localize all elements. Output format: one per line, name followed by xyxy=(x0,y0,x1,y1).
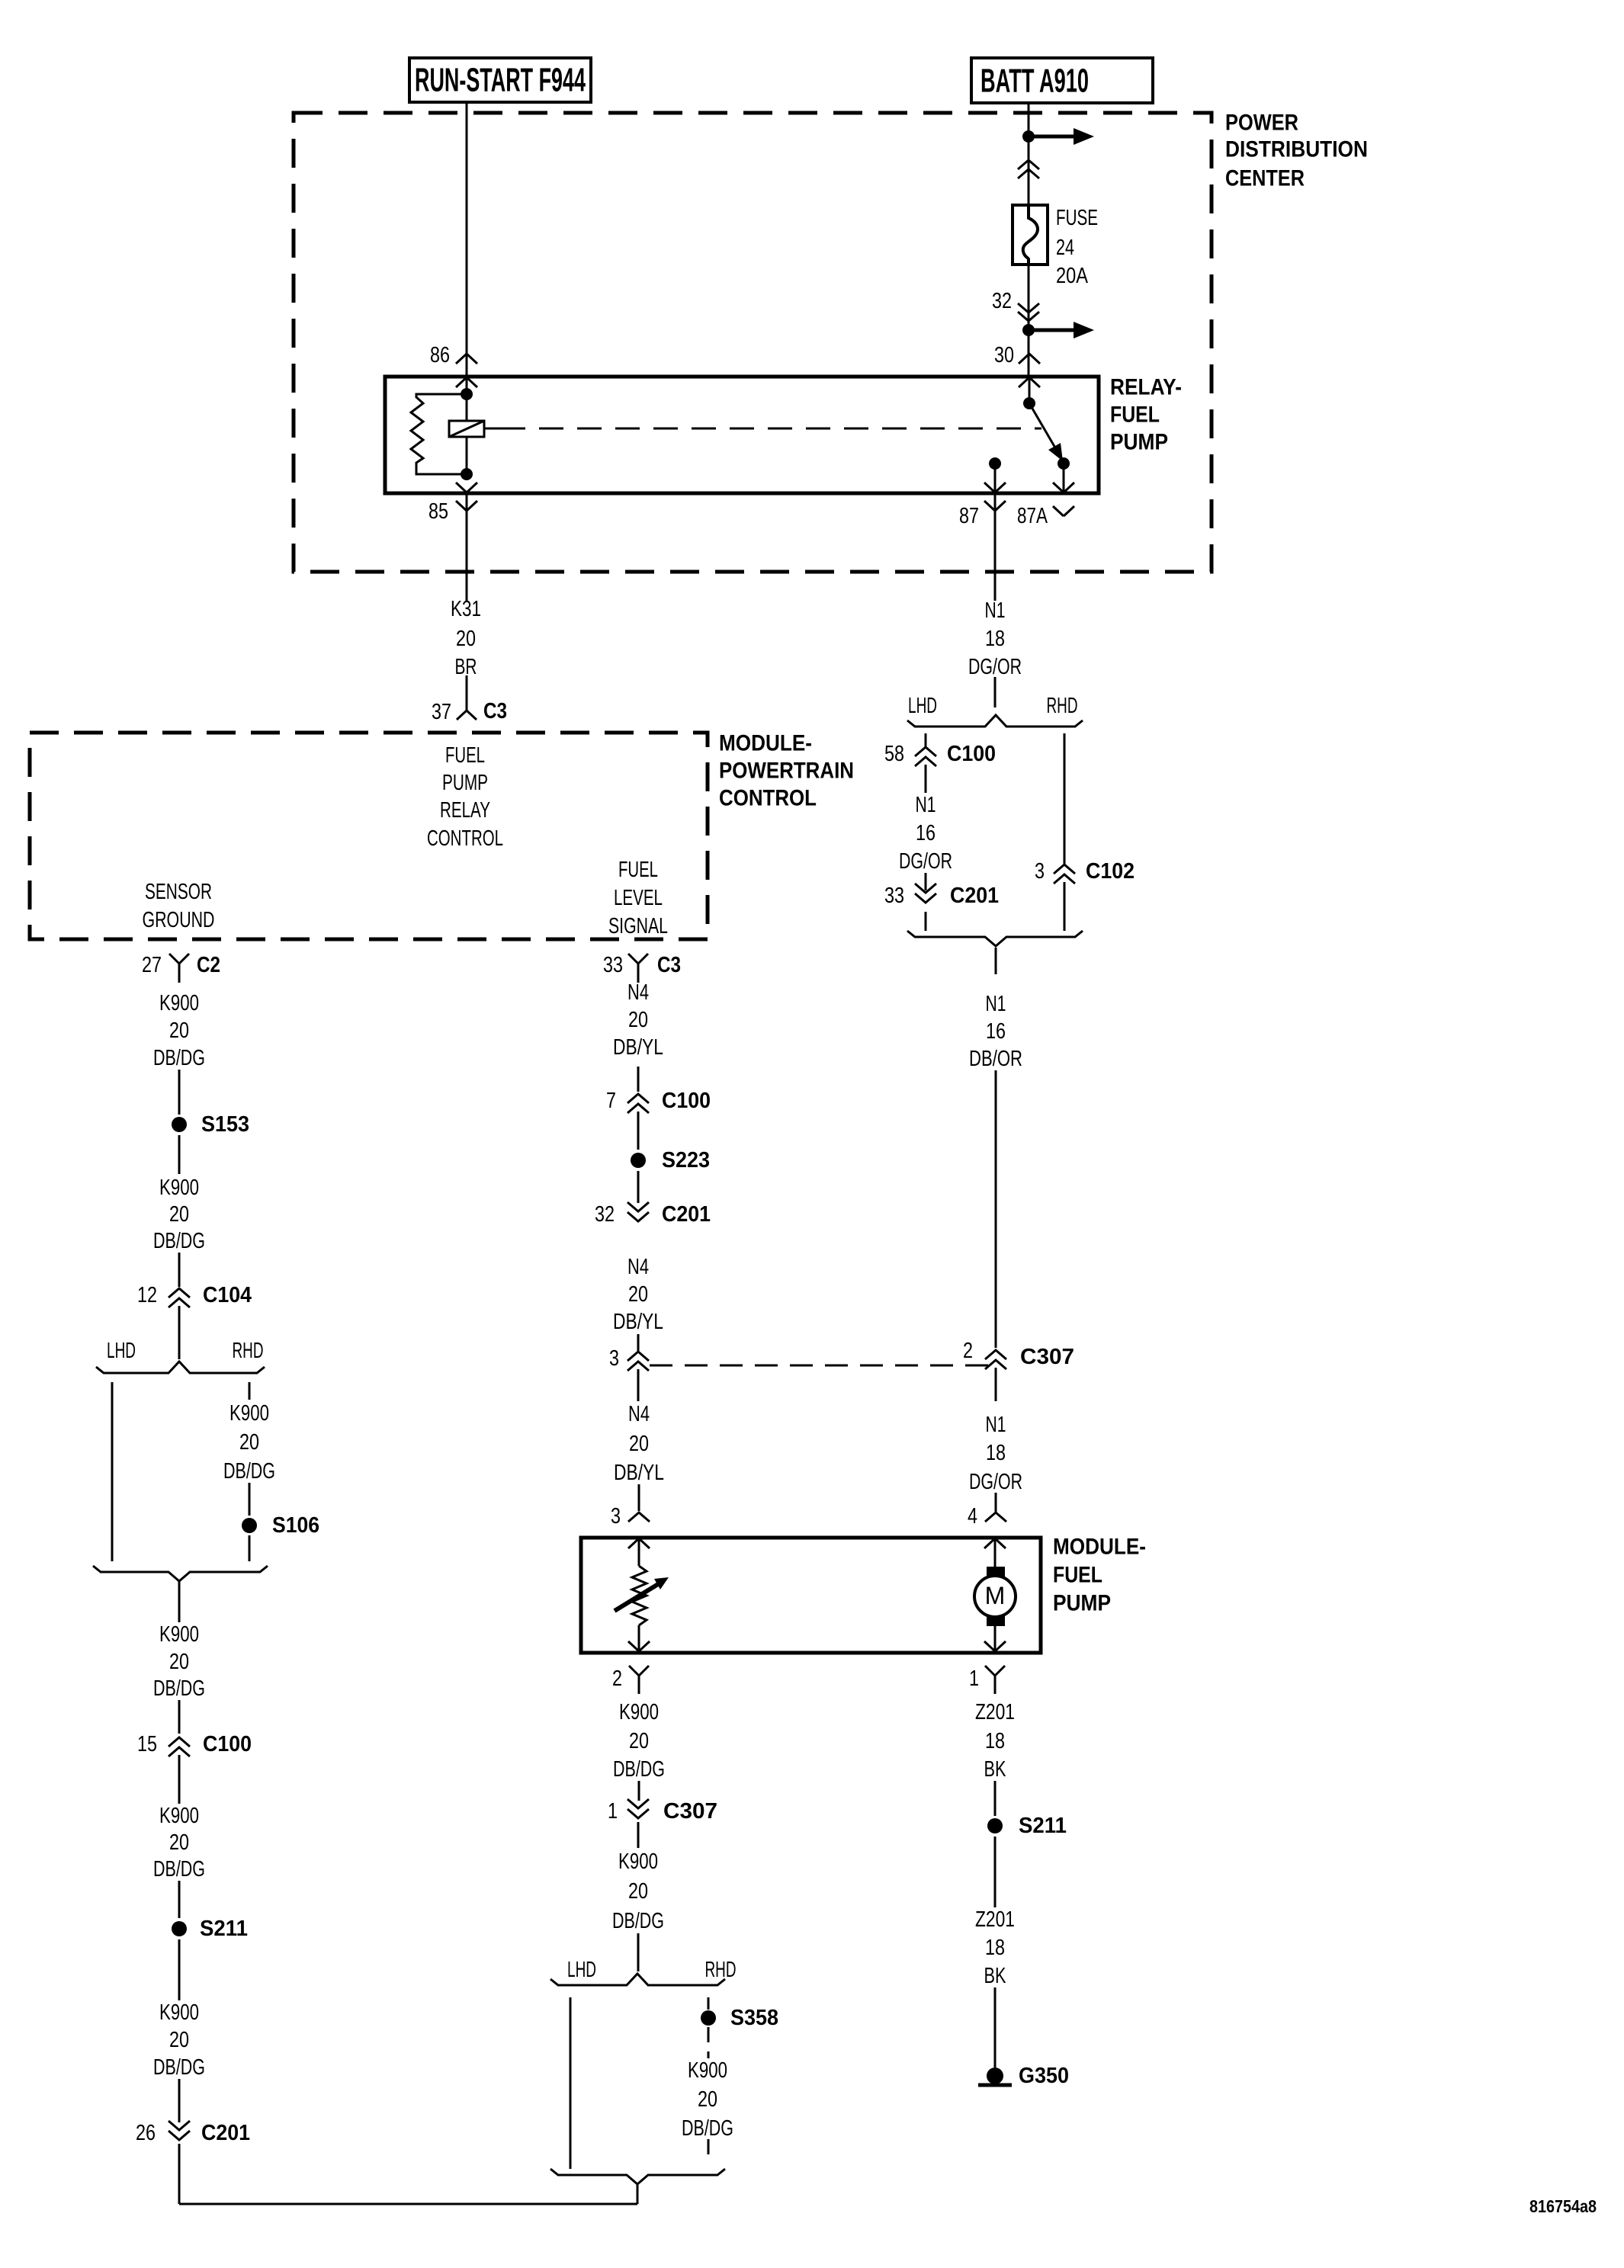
svg-text:POWERTRAIN: POWERTRAIN xyxy=(719,759,854,784)
svg-text:20A: 20A xyxy=(1056,264,1089,288)
svg-text:33: 33 xyxy=(884,884,904,908)
svg-text:16: 16 xyxy=(916,821,936,845)
svg-text:C104: C104 xyxy=(203,1283,252,1307)
svg-text:MODULE-: MODULE- xyxy=(719,731,812,756)
svg-text:DISTRIBUTION: DISTRIBUTION xyxy=(1225,137,1368,162)
relay coil wire pin 86 side xyxy=(466,378,468,421)
svg-text:M: M xyxy=(985,1582,1006,1609)
contact dot 87A xyxy=(1058,457,1070,470)
wire BATT A910 to fuse xyxy=(1028,103,1030,205)
switch pivot dot xyxy=(1023,397,1035,409)
fuel level sensor wire top xyxy=(638,1539,640,1566)
svg-text:K31: K31 xyxy=(451,597,481,621)
wire relay 87 down xyxy=(994,493,997,601)
svg-text:C201: C201 xyxy=(950,884,999,908)
svg-text:12: 12 xyxy=(137,1283,157,1307)
svg-text:SIGNAL: SIGNAL xyxy=(608,914,668,938)
svg-text:18: 18 xyxy=(985,1936,1005,1960)
svg-text:K900: K900 xyxy=(229,1401,269,1426)
svg-text:K900: K900 xyxy=(619,1700,659,1724)
svg-text:DB/YL: DB/YL xyxy=(614,1461,664,1485)
svg-text:32: 32 xyxy=(595,1202,615,1227)
svg-text:CONTROL: CONTROL xyxy=(719,786,817,811)
svg-text:4: 4 xyxy=(968,1504,977,1529)
svg-text:C102: C102 xyxy=(1086,859,1135,884)
svg-text:FUEL: FUEL xyxy=(445,743,485,768)
svg-text:K900: K900 xyxy=(159,1176,199,1200)
svg-text:RELAY-: RELAY- xyxy=(1110,375,1182,400)
power feed arrow xyxy=(1034,135,1074,139)
svg-text:N1: N1 xyxy=(985,598,1006,623)
relay box RELAY-FUEL PUMP xyxy=(385,377,1099,493)
svg-text:DB/DG: DB/DG xyxy=(612,1909,664,1933)
svg-text:K900: K900 xyxy=(159,1804,199,1828)
svg-text:MODULE-: MODULE- xyxy=(1053,1535,1146,1560)
module fuel pump box xyxy=(581,1538,1041,1653)
connector 3 to C307 line xyxy=(627,1352,649,1361)
svg-text:N4: N4 xyxy=(628,1402,650,1426)
svg-text:N1: N1 xyxy=(986,1413,1006,1437)
svg-text:24: 24 xyxy=(1056,236,1074,260)
wire down to C307 xyxy=(995,1070,997,1348)
fuel pump motor wire top xyxy=(994,1539,997,1567)
connector 26 C201 xyxy=(168,2131,190,2140)
svg-text:C3: C3 xyxy=(483,699,507,723)
svg-text:32: 32 xyxy=(992,289,1012,313)
svg-text:87A: 87A xyxy=(1017,504,1048,528)
svg-text:K900: K900 xyxy=(159,2000,199,2025)
svg-text:3: 3 xyxy=(609,1346,619,1371)
splice S211 xyxy=(172,1921,187,1936)
svg-text:DB/DG: DB/DG xyxy=(153,1857,205,1881)
wire RUN-START to relay pin 86 xyxy=(466,102,468,375)
svg-text:20: 20 xyxy=(169,1202,189,1227)
svg-text:1: 1 xyxy=(969,1667,979,1691)
svg-text:C3: C3 xyxy=(657,953,681,977)
wire to ground run xyxy=(637,2184,639,2204)
junction node dot xyxy=(1022,324,1035,336)
svg-text:LHD: LHD xyxy=(908,694,937,718)
connector 58 C100 xyxy=(915,747,936,756)
svg-text:20: 20 xyxy=(239,1430,259,1455)
svg-text:87: 87 xyxy=(959,504,979,528)
connector 33 C201 xyxy=(925,873,927,890)
svg-text:DB/YL: DB/YL xyxy=(613,1310,663,1334)
connector box BATT A910 xyxy=(971,58,1153,103)
splice S106 xyxy=(242,1518,257,1533)
relay contact wire pin 30 side xyxy=(1029,378,1031,403)
LHD RHD merge left xyxy=(93,1566,268,1581)
variable resistor fuel level sensor xyxy=(632,1566,647,1625)
svg-text:DB/DG: DB/DG xyxy=(613,1757,665,1782)
svg-text:RHD: RHD xyxy=(1047,694,1078,718)
svg-text:LEVEL: LEVEL xyxy=(614,886,663,910)
svg-text:N1: N1 xyxy=(916,793,936,817)
svg-text:GROUND: GROUND xyxy=(143,908,215,932)
svg-text:37: 37 xyxy=(432,700,451,724)
svg-text:20: 20 xyxy=(169,1019,189,1043)
svg-text:DB/DG: DB/DG xyxy=(223,1459,275,1484)
in-line connector double chevron xyxy=(1018,160,1039,169)
svg-text:18: 18 xyxy=(985,1729,1005,1753)
svg-text:20: 20 xyxy=(698,2087,717,2112)
svg-text:S358: S358 xyxy=(730,2006,778,2030)
svg-text:DB/YL: DB/YL xyxy=(613,1035,663,1060)
svg-text:S153: S153 xyxy=(201,1112,249,1137)
svg-text:58: 58 xyxy=(884,742,904,766)
svg-text:C307: C307 xyxy=(663,1799,717,1824)
svg-text:LHD: LHD xyxy=(567,1958,596,1982)
svg-text:Z201: Z201 xyxy=(975,1700,1015,1724)
svg-text:PUMP: PUMP xyxy=(1110,430,1168,455)
svg-text:G350: G350 xyxy=(1019,2064,1069,2088)
module powertrain control dashed box xyxy=(30,733,708,939)
relay suppression resistor xyxy=(411,394,467,474)
svg-text:Z201: Z201 xyxy=(975,1907,1015,1932)
contact dot 87 xyxy=(989,457,1001,470)
svg-text:DB/DG: DB/DG xyxy=(153,1046,205,1070)
coil to contact dashed control line xyxy=(484,428,501,430)
fuel pump motor wire bottom xyxy=(994,1626,997,1651)
relay down arrow pin 85 xyxy=(456,483,477,492)
junction dot coil top xyxy=(461,388,473,400)
svg-text:S106: S106 xyxy=(272,1513,319,1538)
svg-text:K900: K900 xyxy=(159,991,199,1015)
svg-text:C2: C2 xyxy=(197,953,220,977)
svg-text:DB/DG: DB/DG xyxy=(682,2116,733,2141)
junction node dot xyxy=(1022,130,1035,143)
svg-text:C307: C307 xyxy=(1020,1345,1074,1369)
fuse 24 20A xyxy=(1013,205,1048,265)
svg-text:BK: BK xyxy=(984,1757,1006,1782)
svg-text:2: 2 xyxy=(963,1339,973,1363)
svg-text:20: 20 xyxy=(456,627,476,651)
splice S153 xyxy=(172,1117,187,1132)
dashed link line C307 xyxy=(650,1365,988,1367)
connector 32 C201 xyxy=(627,1212,649,1221)
svg-text:16: 16 xyxy=(986,1019,1006,1044)
svg-text:N4: N4 xyxy=(627,980,649,1005)
switch arm with arrowhead xyxy=(1029,403,1056,449)
svg-text:20: 20 xyxy=(628,1008,648,1032)
svg-text:BATT A910: BATT A910 xyxy=(980,63,1089,100)
connector 7 C100 xyxy=(627,1094,649,1103)
LHD RHD merge xyxy=(907,931,1083,946)
svg-text:20: 20 xyxy=(169,2028,189,2052)
svg-text:DG/OR: DG/OR xyxy=(969,1470,1022,1494)
svg-text:C100: C100 xyxy=(203,1732,252,1756)
svg-text:POWER: POWER xyxy=(1225,111,1298,136)
svg-text:20: 20 xyxy=(629,1729,649,1753)
wire relay 85 down xyxy=(466,493,468,601)
svg-text:S211: S211 xyxy=(200,1917,248,1941)
svg-text:PUMP: PUMP xyxy=(1053,1591,1111,1616)
svg-text:SENSOR: SENSOR xyxy=(145,880,212,904)
svg-text:FUEL: FUEL xyxy=(1110,403,1160,428)
svg-text:N1: N1 xyxy=(986,992,1006,1016)
svg-text:C201: C201 xyxy=(201,2121,250,2145)
svg-text:BK: BK xyxy=(984,1964,1006,1988)
svg-text:K900: K900 xyxy=(618,1849,658,1874)
connector 37 C3 xyxy=(466,675,468,711)
svg-text:3: 3 xyxy=(611,1504,621,1529)
svg-text:15: 15 xyxy=(137,1732,157,1756)
fuel level sensor wire bottom xyxy=(638,1625,640,1651)
connector 2 C307 xyxy=(985,1350,1006,1359)
LHD RHD split left xyxy=(96,1362,265,1373)
wire fuse to relay pin 30 xyxy=(1028,265,1030,375)
svg-text:RHD: RHD xyxy=(705,1958,737,1982)
svg-text:20: 20 xyxy=(628,1879,648,1904)
svg-text:86: 86 xyxy=(430,343,450,367)
splice S211 xyxy=(987,1818,1003,1833)
svg-text:DG/OR: DG/OR xyxy=(968,655,1022,679)
svg-text:20: 20 xyxy=(629,1432,649,1456)
svg-text:30: 30 xyxy=(994,343,1014,367)
variable resistor arrow xyxy=(615,1582,662,1611)
svg-text:S211: S211 xyxy=(1019,1814,1067,1838)
wire RHD branch xyxy=(249,1382,251,1400)
LHD RHD merge lower xyxy=(550,2169,725,2184)
svg-text:C201: C201 xyxy=(662,1202,711,1227)
svg-text:DG/OR: DG/OR xyxy=(899,849,952,874)
connector 3 C102 xyxy=(1054,865,1075,874)
svg-text:20: 20 xyxy=(628,1282,648,1307)
svg-text:FUEL: FUEL xyxy=(618,858,658,882)
svg-text:2: 2 xyxy=(612,1667,622,1691)
connector 12 C104 xyxy=(168,1288,190,1298)
wire RHD branch dashed xyxy=(708,1997,710,2010)
power distribution center dashed box xyxy=(294,113,1212,572)
connector 1 C307 xyxy=(627,1809,649,1818)
svg-text:RHD: RHD xyxy=(233,1339,264,1363)
connector box RUN-START F944 xyxy=(409,58,591,102)
svg-text:7: 7 xyxy=(606,1089,616,1113)
power feed arrow xyxy=(1034,329,1074,332)
svg-text:K900: K900 xyxy=(159,1622,199,1647)
svg-text:3: 3 xyxy=(1035,859,1045,884)
wire sensor ground return run xyxy=(178,2144,181,2204)
svg-text:FUSE: FUSE xyxy=(1056,206,1098,230)
svg-text:N4: N4 xyxy=(627,1255,649,1279)
relay coil xyxy=(449,421,484,437)
svg-text:PUMP: PUMP xyxy=(442,771,488,795)
svg-text:816754a8: 816754a8 xyxy=(1529,2196,1597,2216)
wire LHD branch xyxy=(570,1997,572,2169)
ground G350 xyxy=(987,2068,1003,2084)
LHD RHD split lower xyxy=(637,1933,640,1971)
svg-text:33: 33 xyxy=(603,953,623,977)
svg-text:LHD: LHD xyxy=(107,1339,136,1363)
svg-text:26: 26 xyxy=(136,2121,156,2145)
svg-text:FUEL: FUEL xyxy=(1053,1563,1102,1588)
fuel pump motor M xyxy=(987,1567,1005,1577)
svg-text:85: 85 xyxy=(428,499,448,524)
svg-text:20: 20 xyxy=(169,1650,189,1674)
svg-text:S223: S223 xyxy=(662,1148,710,1172)
svg-text:C100: C100 xyxy=(662,1089,711,1113)
splice S223 xyxy=(631,1153,646,1168)
svg-text:RUN-START F944: RUN-START F944 xyxy=(415,62,586,99)
svg-text:DB/DG: DB/DG xyxy=(153,1229,205,1253)
wire RHD branch xyxy=(1064,733,1066,865)
wire LHD branch xyxy=(925,733,927,749)
svg-text:K900: K900 xyxy=(688,2058,727,2083)
svg-text:27: 27 xyxy=(142,953,162,977)
wire LHD branch xyxy=(111,1382,114,1561)
svg-text:RELAY: RELAY xyxy=(440,798,490,823)
svg-text:DB/OR: DB/OR xyxy=(969,1047,1022,1071)
svg-text:18: 18 xyxy=(985,627,1005,651)
svg-text:1: 1 xyxy=(608,1799,618,1824)
svg-text:C100: C100 xyxy=(947,742,996,766)
connector 15 C100 xyxy=(168,1737,190,1747)
svg-text:CONTROL: CONTROL xyxy=(427,826,503,851)
LHD RHD split xyxy=(994,677,997,707)
junction dot coil bottom xyxy=(461,468,473,480)
svg-text:20: 20 xyxy=(169,1830,189,1855)
svg-text:18: 18 xyxy=(986,1441,1006,1465)
svg-text:DB/DG: DB/DG xyxy=(153,2055,205,2080)
svg-text:DB/DG: DB/DG xyxy=(153,1676,205,1701)
splice S358 xyxy=(701,2010,716,2026)
svg-text:CENTER: CENTER xyxy=(1225,166,1305,191)
